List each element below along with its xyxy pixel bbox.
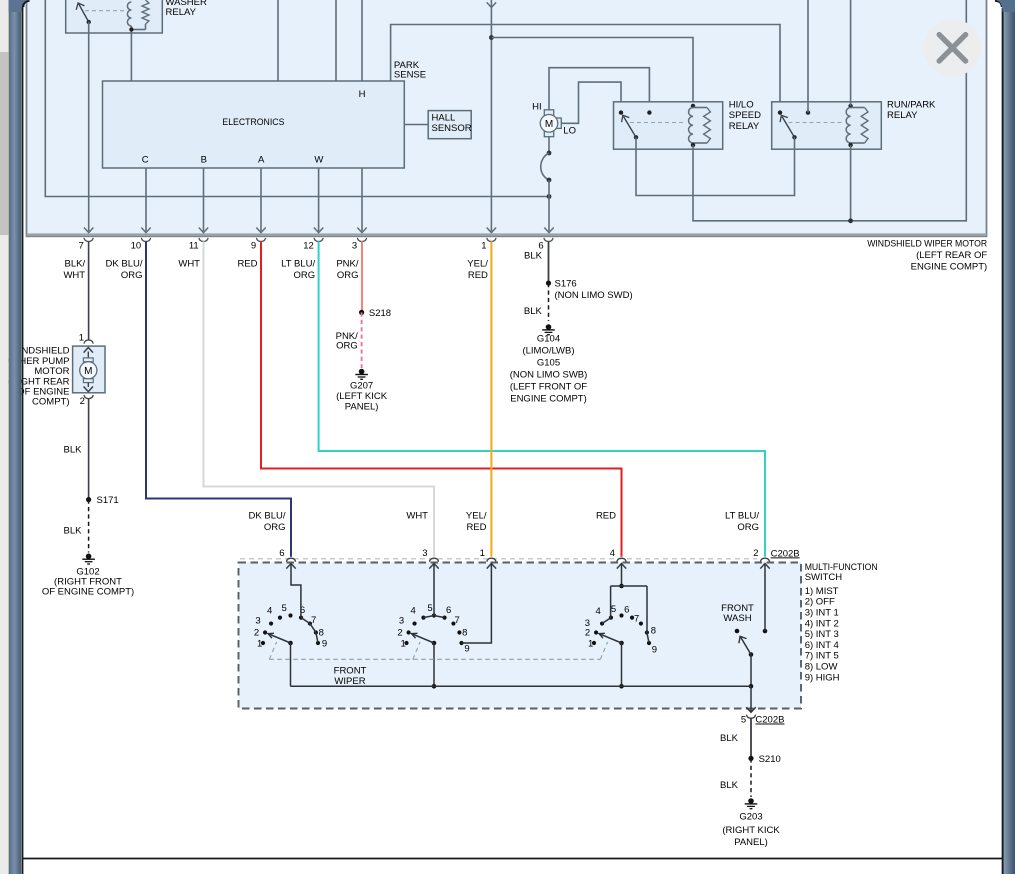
svg-text:HI/LO: HI/LO <box>729 99 754 110</box>
wire motor LO to hi/lo relay contact 1 <box>561 82 621 123</box>
svg-text:7) INT 5: 7) INT 5 <box>805 651 839 662</box>
svg-text:ENGINE COMPT): ENGINE COMPT) <box>510 394 587 405</box>
svg-text:8: 8 <box>462 628 467 639</box>
svg-text:1: 1 <box>481 240 486 251</box>
svg-text:BLK: BLK <box>720 733 739 744</box>
wire motor HI to hi/lo relay contact 2 <box>549 68 649 113</box>
svg-text:3: 3 <box>422 548 427 559</box>
svg-text:OF ENGINE COMPT): OF ENGINE COMPT) <box>42 587 134 598</box>
svg-text:W: W <box>314 154 323 165</box>
rotary switch wafer2 wiper arm <box>432 641 437 646</box>
connector pin 7 windshield wiper motor <box>84 238 93 242</box>
hi/lo relay contact 2 <box>647 110 651 114</box>
ground G102 <box>86 554 92 560</box>
wire motor ground to pin 6 <box>548 180 550 231</box>
svg-text:PNK/: PNK/ <box>336 259 359 270</box>
svg-text:BLK: BLK <box>720 780 739 791</box>
feed branch to hi/lo relay coil <box>491 38 693 106</box>
svg-text:5: 5 <box>282 603 287 614</box>
connector pin 1 windshield wiper motor <box>487 238 496 242</box>
ground G104/G105 <box>546 324 552 330</box>
connector pin 6 windshield wiper motor <box>544 238 553 242</box>
svg-text:(LEFT REAR OF: (LEFT REAR OF <box>916 250 987 261</box>
hi/lo relay dashed actuation <box>630 122 686 124</box>
svg-text:9: 9 <box>652 644 657 655</box>
svg-text:4: 4 <box>596 606 601 617</box>
svg-text:ORG: ORG <box>337 270 359 281</box>
svg-text:BLK: BLK <box>64 525 83 536</box>
run/park relay coil <box>848 104 852 108</box>
svg-text:ORG: ORG <box>336 341 358 352</box>
washer relay K1 box <box>66 0 163 33</box>
wire run/park contact 2 from top <box>807 0 809 113</box>
svg-text:9: 9 <box>464 643 469 654</box>
wafer1 contact strip 6-9 <box>301 618 318 643</box>
page border <box>22 0 24 874</box>
splice S218 <box>359 310 364 315</box>
svg-text:2: 2 <box>585 627 590 638</box>
svg-text:6: 6 <box>624 605 629 616</box>
relay coil return bus <box>693 0 966 221</box>
rotary switch wafer1 wiper arm <box>288 641 293 646</box>
hi/lo speed relay box <box>614 102 723 149</box>
run/park relay box <box>772 102 882 149</box>
svg-text:PANEL): PANEL) <box>734 837 768 848</box>
splice S171 <box>86 497 91 502</box>
svg-text:ORG: ORG <box>264 522 286 533</box>
svg-text:M: M <box>545 119 553 130</box>
svg-text:PANEL): PANEL) <box>345 401 379 412</box>
svg-text:4) INT 2: 4) INT 2 <box>805 618 839 629</box>
run/park relay contact 1 <box>778 110 782 114</box>
yel/red feed wire from top <box>490 0 492 231</box>
svg-text:A: A <box>258 154 265 165</box>
wafer3 contact strip 3-4 <box>602 618 611 624</box>
wire pin3 into wafer2 position 5 <box>429 564 438 569</box>
washer pump motor connector pin 1 <box>84 340 93 344</box>
svg-text:1) MIST: 1) MIST <box>805 586 839 597</box>
svg-text:3: 3 <box>255 615 260 626</box>
wire pin4 into wafer3 positions 4 and 8 <box>617 564 626 569</box>
window edge bar right <box>1003 0 1015 874</box>
svg-text:HI: HI <box>532 102 542 113</box>
wire wafer2 wiper to bus <box>433 643 435 686</box>
svg-text:LT BLU/: LT BLU/ <box>725 510 759 521</box>
park return bus wire <box>45 0 549 197</box>
svg-text:RED: RED <box>596 510 616 521</box>
svg-text:LO: LO <box>563 125 576 136</box>
svg-text:G207: G207 <box>350 380 373 391</box>
window edge bar left <box>9 0 22 874</box>
wire washer relay switch to pin 7 <box>88 22 90 231</box>
svg-text:(NON LIMO SWB): (NON LIMO SWB) <box>510 370 588 381</box>
rotary switch wafer2 mechanical link <box>413 642 420 659</box>
svg-text:C202B: C202B <box>755 715 784 726</box>
svg-text:WINDSHIELD WIPER MOTOR: WINDSHIELD WIPER MOTOR <box>867 239 987 250</box>
wire H from top <box>361 0 363 81</box>
rotary switch wafer2 contacts <box>404 641 408 645</box>
wire pnk/org pin3 to splice S218 <box>361 241 363 312</box>
svg-text:7: 7 <box>79 240 84 251</box>
svg-text:ORG: ORG <box>737 522 759 533</box>
rotary switch wafer3 contacts <box>592 641 596 645</box>
wire into electronics top 1 <box>277 0 279 81</box>
splice S176 <box>546 281 551 286</box>
svg-text:YEL/: YEL/ <box>467 259 488 270</box>
run/park relay resistor <box>851 107 865 109</box>
svg-text:C202B: C202B <box>771 548 800 559</box>
svg-text:COMPT): COMPT) <box>32 397 69 408</box>
assembly connector bar <box>27 233 987 236</box>
svg-text:B: B <box>201 154 207 165</box>
switch common bus <box>291 685 752 687</box>
wire electronics A to pin 9 <box>260 168 262 231</box>
ground G203 <box>748 798 754 804</box>
hi/lo relay armature <box>634 135 638 139</box>
svg-text:SENSOR: SENSOR <box>432 123 472 134</box>
wire washer relay coil to electronics <box>130 33 132 81</box>
svg-text:9) HIGH: 9) HIGH <box>805 672 840 683</box>
wire bus to pin5 C202B <box>750 686 752 711</box>
svg-text:G104: G104 <box>537 334 560 345</box>
dashed wire S171 to ground <box>88 500 90 553</box>
wire electronics to hall sensor <box>404 124 428 126</box>
splice S210 <box>748 756 753 761</box>
wire blk pin6 to splice S176 <box>548 241 550 283</box>
svg-text:ORG: ORG <box>293 270 315 281</box>
connector pin 1 C202B <box>487 558 496 562</box>
dashed wire S218 to ground G207 <box>361 312 363 368</box>
run/park relay contact 2 <box>806 110 810 114</box>
windshield washer pump motor box <box>73 346 105 393</box>
wire blk pin5 to splice S210 <box>750 718 752 758</box>
svg-text:3: 3 <box>399 615 404 626</box>
svg-text:(LEFT FRONT OF: (LEFT FRONT OF <box>510 382 587 393</box>
close button <box>924 19 982 77</box>
svg-text:4: 4 <box>610 548 615 559</box>
svg-text:BLK: BLK <box>524 306 543 317</box>
svg-text:BLK: BLK <box>524 251 543 262</box>
wire yel/red pin1 to switch pin1 <box>490 241 492 556</box>
connector pin 12 windshield wiper motor <box>314 238 323 242</box>
svg-text:6) INT 4: 6) INT 4 <box>805 640 839 651</box>
svg-text:(RIGHT KICK: (RIGHT KICK <box>722 825 780 836</box>
svg-text:S210: S210 <box>759 754 781 765</box>
wire washer pump to splice S171 <box>88 399 90 500</box>
wire dk blu/org pin10 to switch pin6 <box>146 241 291 556</box>
svg-text:S171: S171 <box>97 495 119 506</box>
wire motor bottom with flex loop <box>548 137 550 153</box>
wire hi/lo armature to run/park armature <box>636 137 795 195</box>
svg-text:6: 6 <box>446 605 451 616</box>
svg-text:8: 8 <box>319 628 324 639</box>
wire electronics B to pin 11 <box>203 168 205 231</box>
svg-text:1: 1 <box>480 548 485 559</box>
svg-text:S218: S218 <box>369 308 391 319</box>
svg-text:RELAY: RELAY <box>887 110 918 121</box>
svg-text:2: 2 <box>397 627 402 638</box>
wire front wash to bus <box>750 655 752 687</box>
wire wafer1 wiper to bus <box>290 643 292 686</box>
wire electronics C to pin 10 <box>145 168 147 231</box>
wire electronics H-column to pin 3 <box>361 168 363 231</box>
park sense wire <box>391 25 780 113</box>
svg-text:RED: RED <box>237 259 257 270</box>
svg-text:YEL/: YEL/ <box>466 510 487 521</box>
washer pump motor connector pin 2 <box>84 395 93 399</box>
wire pin2 to front wash contact <box>764 564 766 632</box>
svg-text:RELAY: RELAY <box>166 7 197 18</box>
wire run/park coil top from top <box>850 0 852 106</box>
svg-text:FRONT: FRONT <box>334 665 367 676</box>
hi/lo relay coil <box>691 104 695 108</box>
connector pin 11 windshield wiper motor <box>199 238 208 242</box>
svg-text:12: 12 <box>303 240 314 251</box>
svg-text:3) INT 1: 3) INT 1 <box>805 607 839 618</box>
rotary switch wafer1 contacts <box>261 641 265 645</box>
wire red pin9 to switch pin4 <box>261 241 622 556</box>
svg-text:4: 4 <box>410 606 415 617</box>
scrollbar track <box>0 0 9 874</box>
svg-text:9: 9 <box>322 638 327 649</box>
svg-text:WHT: WHT <box>406 510 428 521</box>
connector line C202B <box>240 558 757 560</box>
svg-text:DK BLU/: DK BLU/ <box>249 510 286 521</box>
rotary switch wafer3 wiper arm <box>619 641 624 646</box>
rotary switch wafer3 mechanical link <box>600 642 607 659</box>
connector pin 10 windshield wiper motor <box>141 238 150 242</box>
multi-function switch box <box>239 563 802 709</box>
svg-text:5: 5 <box>427 603 432 614</box>
svg-text:M: M <box>84 366 92 377</box>
wire wht pin11 to switch pin3 <box>204 241 435 556</box>
svg-text:H: H <box>359 89 366 100</box>
svg-text:SWITCH: SWITCH <box>805 572 843 583</box>
hi/lo relay resistor <box>693 107 707 109</box>
svg-text:5: 5 <box>741 715 746 726</box>
svg-text:G203: G203 <box>739 812 762 823</box>
svg-text:1: 1 <box>257 638 262 649</box>
run/park relay dashed actuation <box>789 122 844 124</box>
wire wafer3 wiper to bus <box>621 643 623 686</box>
wire electronics W to pin 12 <box>318 168 320 231</box>
electronics module box <box>103 81 405 168</box>
svg-text:SPEED: SPEED <box>729 110 761 121</box>
run/park relay armature <box>792 135 796 139</box>
svg-text:11: 11 <box>189 240 199 251</box>
wafer2 contact strip 4-6 <box>423 616 444 618</box>
svg-text:WHT: WHT <box>178 259 200 270</box>
connector pin 5 C202B <box>746 715 755 719</box>
wiper motor M1 <box>544 110 553 116</box>
svg-text:(LEFT KICK: (LEFT KICK <box>336 391 388 402</box>
svg-text:RUN/PARK: RUN/PARK <box>887 99 936 110</box>
washer relay switch <box>87 20 91 24</box>
svg-text:7: 7 <box>311 615 316 626</box>
diagram bottom rule <box>22 858 1003 860</box>
svg-text:S176: S176 <box>555 279 577 290</box>
hall sensor box <box>428 111 471 139</box>
connector pin 3 C202B <box>429 558 438 562</box>
wire pin6 into wafer1 position 6 <box>286 564 295 569</box>
connector pin 6 C202B <box>286 558 295 562</box>
svg-text:LT BLU/: LT BLU/ <box>281 259 315 270</box>
svg-text:BLK/: BLK/ <box>64 259 85 270</box>
svg-text:ENGINE COMPT): ENGINE COMPT) <box>911 262 988 273</box>
svg-text:3: 3 <box>352 240 357 251</box>
svg-text:5) INT 3: 5) INT 3 <box>805 629 839 640</box>
dashed wire S210 to ground G203 <box>750 758 752 797</box>
connector pin 9 windshield wiper motor <box>256 238 265 242</box>
mechanical link bar <box>269 658 600 660</box>
svg-text:8: 8 <box>651 626 656 637</box>
hi/lo relay contact 1 <box>619 110 623 114</box>
svg-text:SENSE: SENSE <box>394 70 426 81</box>
dashed wire S176 to ground G104 <box>548 283 550 321</box>
svg-text:3: 3 <box>585 618 590 629</box>
svg-text:5: 5 <box>611 604 616 615</box>
svg-text:2) OFF: 2) OFF <box>805 597 835 608</box>
svg-text:ELECTRONICS: ELECTRONICS <box>222 117 284 128</box>
svg-text:2: 2 <box>753 548 758 559</box>
svg-text:G105: G105 <box>537 358 560 369</box>
svg-text:WHT: WHT <box>63 270 85 281</box>
svg-text:(LIMO/LWB): (LIMO/LWB) <box>522 346 574 357</box>
wire lt blu/org pin12 to switch pin2 <box>319 241 765 556</box>
svg-text:4: 4 <box>267 606 272 617</box>
svg-text:7: 7 <box>455 615 460 626</box>
svg-text:1: 1 <box>401 638 406 649</box>
svg-text:WASH: WASH <box>723 613 751 624</box>
svg-text:7: 7 <box>634 613 639 624</box>
connector pin 4 C202B <box>617 558 626 562</box>
wire pin1 into wafer2 position 9 <box>487 564 496 569</box>
svg-text:DK BLU/: DK BLU/ <box>106 259 143 270</box>
svg-text:RED: RED <box>466 522 486 533</box>
svg-text:1: 1 <box>79 332 84 343</box>
svg-text:8) LOW: 8) LOW <box>805 662 838 673</box>
svg-text:1: 1 <box>588 638 593 649</box>
washer relay actuation dashed link <box>85 10 124 12</box>
windshield wiper motor assembly block <box>27 0 987 236</box>
ground G207 <box>359 369 365 375</box>
svg-text:2: 2 <box>80 396 85 407</box>
svg-text:ORG: ORG <box>121 270 143 281</box>
scrollbar thumb <box>0 52 9 235</box>
svg-text:HALL: HALL <box>432 112 456 123</box>
wire into electronics top 2 <box>335 0 337 81</box>
washer relay resistor <box>142 0 149 24</box>
svg-text:10: 10 <box>131 240 142 251</box>
svg-text:9: 9 <box>251 240 256 251</box>
connector pin 2 C202B <box>760 558 769 562</box>
svg-text:RED: RED <box>468 270 488 281</box>
washer relay coil <box>127 2 131 26</box>
svg-text:(NON LIMO SWD): (NON LIMO SWD) <box>555 290 633 301</box>
wire blk/wht pin7 to washer pump <box>88 241 90 340</box>
svg-text:6: 6 <box>279 548 284 559</box>
svg-text:BLK: BLK <box>64 444 83 455</box>
svg-text:C: C <box>142 154 149 165</box>
rotary switch wafer1 mechanical link <box>269 642 276 659</box>
connector pin 3 windshield wiper motor <box>357 238 366 242</box>
wafer3 contact strip 8-9 <box>647 632 649 643</box>
svg-text:2: 2 <box>254 627 259 638</box>
svg-text:RELAY: RELAY <box>729 121 760 132</box>
